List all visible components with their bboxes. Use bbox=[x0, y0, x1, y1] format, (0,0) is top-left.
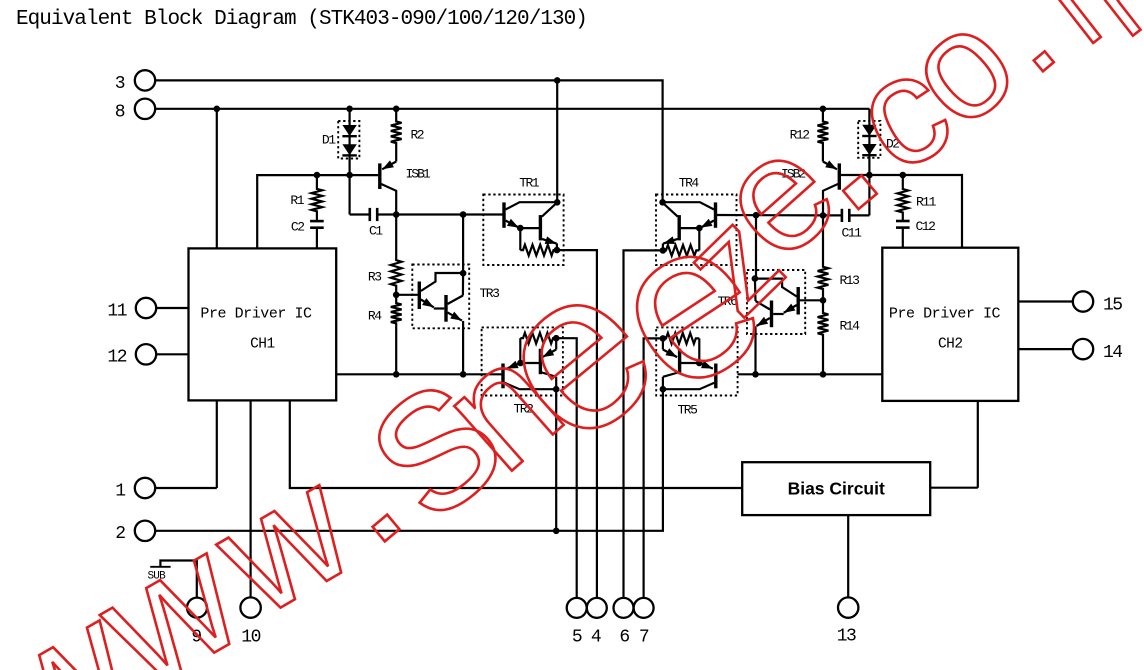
wire D2 vertical bbox=[868, 109, 870, 175]
transistor TR6 bbox=[797, 287, 800, 315]
wire pin3 rail to TR4 collector bbox=[156, 80, 663, 202]
SUB substrate symbol bbox=[160, 561, 196, 598]
pin 8 bbox=[135, 99, 155, 119]
svg-text:C2: C2 bbox=[291, 220, 304, 235]
svg-text:Bias Circuit: Bias Circuit bbox=[788, 479, 885, 499]
wire R2 to ISB1 emitter bbox=[382, 162, 396, 170]
svg-text:8: 8 bbox=[115, 103, 125, 123]
transistor TR5 bbox=[714, 364, 717, 389]
pin 3 bbox=[135, 70, 155, 90]
pin 6 bbox=[614, 598, 634, 618]
capacitor C2 bbox=[310, 220, 324, 223]
wire bias to CH2 bbox=[930, 487, 978, 489]
wire ISB2 collector bbox=[823, 184, 838, 215]
pin 10 bbox=[240, 597, 260, 617]
resistor R2 bbox=[391, 109, 402, 162]
wire down to TR3 collector bbox=[462, 215, 464, 274]
junction (556.2,338.2) bbox=[553, 335, 560, 342]
wire pin8 to CH1 top bbox=[216, 109, 218, 249]
svg-text:12: 12 bbox=[107, 348, 126, 368]
junction (216.8,108.8) bbox=[214, 106, 221, 113]
block Pre Driver IC CH2 bbox=[882, 248, 1018, 401]
svg-text:Pre Driver IC: Pre Driver IC bbox=[200, 306, 312, 323]
wire TR5 output to pin 7 bbox=[644, 338, 663, 598]
junction (662.9,389.2) bbox=[660, 386, 667, 393]
junction (556.9,250.1) bbox=[554, 247, 561, 254]
junction (520.4,363) bbox=[517, 360, 524, 367]
resistor R14 bbox=[818, 300, 829, 374]
wire R12 to ISB2 emitter bbox=[823, 162, 837, 170]
junction (349.6,175.1) bbox=[346, 172, 353, 179]
wire TR1 collector vertical bbox=[556, 80, 558, 202]
wire D1 vertical bbox=[349, 109, 351, 175]
junction (662.9,250.4) bbox=[660, 247, 667, 254]
svg-text:ISB1: ISB1 bbox=[406, 167, 431, 182]
TR5 emitter resistor bbox=[663, 333, 699, 344]
svg-text:6: 6 bbox=[619, 628, 629, 648]
wire pin8 rail bbox=[156, 108, 870, 110]
wire TR4 output to pin 6 bbox=[624, 250, 663, 598]
svg-text:R2: R2 bbox=[411, 128, 424, 143]
svg-text:7: 7 bbox=[639, 628, 649, 648]
capacitor C1 bbox=[349, 175, 351, 214]
svg-text:D1: D1 bbox=[322, 133, 336, 148]
svg-text:CH2: CH2 bbox=[938, 337, 963, 353]
resistor R1 bbox=[312, 175, 323, 221]
junction (557.2,202.3) bbox=[554, 199, 561, 206]
junction (316.9,175.1) bbox=[314, 172, 321, 179]
junction (823,374.3) bbox=[820, 371, 827, 378]
transistor TR3 bbox=[418, 282, 421, 310]
svg-text:15: 15 bbox=[1103, 296, 1122, 316]
pin 7 bbox=[634, 598, 654, 618]
resistor R3 bbox=[391, 215, 402, 295]
svg-text:CH1: CH1 bbox=[250, 337, 275, 353]
wire TR2 output to pin 5 bbox=[556, 338, 577, 598]
junction (823,300.3) bbox=[820, 297, 827, 304]
wire R13R14 junction to TR6 base bbox=[799, 299, 824, 301]
junction (463.1,214.5) bbox=[460, 211, 467, 218]
junction (463.1,273.2) bbox=[460, 270, 467, 277]
wire pin2 rail to TR5 collector bbox=[155, 389, 663, 531]
svg-text:13: 13 bbox=[837, 627, 856, 647]
junction (396.2,294.8) bbox=[393, 292, 400, 299]
wire CH1 to pin 10 bbox=[250, 400, 252, 597]
junction (556.2,389.2) bbox=[553, 386, 560, 393]
wire CH1 to base rail / D1 / ISB1 base bbox=[257, 175, 378, 248]
resistor R4 bbox=[391, 295, 402, 375]
transistor TR2 bbox=[501, 364, 504, 389]
wire CH1 to bias circuit bbox=[290, 400, 742, 488]
junction (699.3,228.1) bbox=[696, 225, 703, 232]
wire TR2 collector down to pin2 rail bbox=[555, 389, 557, 531]
svg-text:TR1: TR1 bbox=[519, 176, 540, 191]
pin 11 bbox=[136, 298, 156, 318]
junction (822.9,108.8) bbox=[820, 106, 827, 113]
wire ISB2 base rail to CH2 bbox=[841, 175, 962, 248]
junction (902.8,175) bbox=[900, 172, 907, 179]
svg-text:R1: R1 bbox=[290, 193, 304, 208]
resistor R13 bbox=[818, 215, 829, 300]
watermark glyph . bbox=[373, 515, 400, 542]
pin 15 bbox=[1073, 291, 1093, 311]
watermark glyph . bbox=[1034, 51, 1054, 71]
svg-text:3: 3 bbox=[115, 74, 125, 94]
wire C11 junction to TR4 base bbox=[717, 214, 823, 217]
resistor R12 bbox=[818, 109, 829, 162]
wire CH1 to pin1 bbox=[216, 400, 218, 488]
svg-text:4: 4 bbox=[591, 628, 601, 648]
pin 13 bbox=[838, 597, 858, 617]
wire ISB1 collector bbox=[381, 184, 396, 215]
pin 4 bbox=[587, 598, 607, 618]
wire TR1 output to pin 4 bbox=[557, 250, 597, 598]
junction (557.2,80.4) bbox=[554, 77, 561, 84]
svg-text:R14: R14 bbox=[840, 319, 861, 334]
TR4 emitter resistor bbox=[663, 245, 699, 256]
svg-text:1: 1 bbox=[115, 482, 125, 502]
pin 9 bbox=[187, 598, 207, 618]
wire bias to pin 13 bbox=[847, 515, 849, 597]
junction (662.9,338.4) bbox=[660, 335, 667, 342]
pin 12 bbox=[136, 344, 156, 364]
svg-text:11: 11 bbox=[107, 302, 126, 322]
pin 2 bbox=[135, 521, 155, 541]
block Pre Driver IC CH1 bbox=[189, 248, 337, 400]
junction (823,215.4) bbox=[820, 212, 827, 219]
junction (869.4,175) bbox=[866, 172, 873, 179]
svg-text:Equivalent Block Diagram (STK4: Equivalent Block Diagram (STK403-090/100… bbox=[16, 8, 587, 31]
diode D2 bbox=[862, 125, 876, 136]
wire C1 junction to TR1 base bbox=[396, 213, 502, 215]
transistor ISB2 bbox=[838, 163, 841, 189]
block Bias Circuit bbox=[742, 462, 930, 515]
capacitor C12 bbox=[896, 220, 910, 223]
watermark glyph . bbox=[843, 175, 877, 209]
transistor TR1 bbox=[502, 202, 505, 227]
junction (754.9,278.6) bbox=[752, 275, 759, 282]
junction (349.6,108.8) bbox=[346, 106, 353, 113]
svg-text:5: 5 bbox=[572, 628, 582, 648]
svg-text:R12: R12 bbox=[790, 128, 810, 143]
pin 14 bbox=[1073, 339, 1093, 359]
junction (756,215.2) bbox=[753, 212, 760, 219]
svg-text:14: 14 bbox=[1103, 343, 1122, 363]
svg-text:C12: C12 bbox=[916, 219, 936, 234]
junction (396.2,214.5) bbox=[393, 211, 400, 218]
svg-text:R3: R3 bbox=[368, 270, 381, 285]
junction (520.3,228.1) bbox=[517, 225, 524, 232]
diode D1 bbox=[342, 125, 356, 136]
junction (556.2,530.8) bbox=[553, 528, 560, 535]
junction (699.3,363) bbox=[696, 360, 703, 367]
wire CH2 bottom to bias bbox=[977, 401, 979, 488]
wire TR5 base rail to CH2 bbox=[738, 373, 883, 375]
transistor ISB1 bbox=[378, 163, 381, 189]
resistor R11 bbox=[897, 175, 908, 221]
junction (463.1,374.3) bbox=[460, 371, 467, 378]
wire R3R4 junction to TR3 base bbox=[396, 294, 418, 296]
svg-text:C1: C1 bbox=[369, 224, 383, 239]
TR2 emitter resistor bbox=[520, 333, 556, 344]
junction (755.5,374.3) bbox=[752, 371, 759, 378]
wire CH1 right to TR2 base rail bbox=[336, 373, 501, 375]
junction (396.2,374.3) bbox=[393, 371, 400, 378]
junction (396.2,108.8) bbox=[393, 106, 400, 113]
svg-text:R13: R13 bbox=[840, 273, 860, 288]
transistor TR4 bbox=[714, 202, 717, 227]
junction (662.6,202.3) bbox=[659, 199, 666, 206]
svg-text:Pre Driver IC: Pre Driver IC bbox=[889, 306, 1001, 323]
wire down to TR6 collector bbox=[755, 215, 757, 278]
TR1 emitter resistor bbox=[520, 245, 557, 256]
pin 1 bbox=[135, 478, 155, 498]
capacitor C11 bbox=[868, 175, 870, 215]
pin 5 bbox=[567, 598, 587, 618]
